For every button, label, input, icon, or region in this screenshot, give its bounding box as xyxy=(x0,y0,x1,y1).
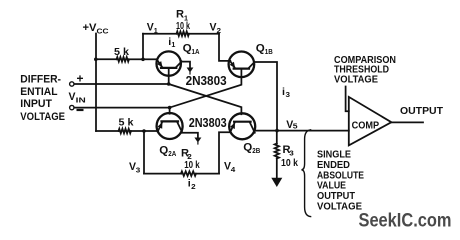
svg-text:2N3803: 2N3803 xyxy=(186,74,227,88)
wire Q1A base down to + node xyxy=(168,68,170,84)
svg-text:5 k: 5 k xyxy=(114,46,129,58)
wire + input line xyxy=(74,83,168,85)
svg-text:2: 2 xyxy=(217,26,222,35)
op-amp comparator U1 xyxy=(349,97,392,145)
svg-text:10 k: 10 k xyxy=(184,160,200,171)
wire node V2 vertical to Q1B emitter xyxy=(219,34,230,61)
svg-text:10 k: 10 k xyxy=(176,21,190,32)
svg-text:2: 2 xyxy=(191,184,196,191)
transistor Q1B xyxy=(229,52,255,78)
transistor Q2A xyxy=(157,113,183,139)
svg-text:10 k: 10 k xyxy=(281,158,298,169)
Q1A collector arrow to negative rail xyxy=(182,62,194,74)
wire node V3 vertical xyxy=(143,131,145,174)
wire top rail V1 left segment xyxy=(143,33,177,35)
wire VCC to 5k (top) xyxy=(96,58,117,60)
svg-text:SeekIC.com: SeekIC.com xyxy=(359,211,452,232)
transistor Q2B xyxy=(229,113,255,139)
svg-text:5: 5 xyxy=(293,122,298,131)
svg-text:3: 3 xyxy=(289,149,294,158)
svg-text:3: 3 xyxy=(286,92,291,99)
wire node V1 vertical xyxy=(142,34,144,60)
wire cross-couple node A to Q2B base xyxy=(169,84,242,114)
svg-text:ENTIAL: ENTIAL xyxy=(20,86,57,98)
svg-text:5 k: 5 k xyxy=(119,117,134,129)
wire 5k to V1 node xyxy=(129,58,143,60)
svg-text:2B: 2B xyxy=(252,146,260,155)
svg-text:+: + xyxy=(77,72,84,86)
svg-text:VOLTAGE: VOLTAGE xyxy=(20,111,65,123)
brace for single ended output voltage xyxy=(301,130,310,217)
wire - input line xyxy=(74,107,169,109)
transistor Q1A xyxy=(157,51,182,75)
ground arrow (negative rail) under R3 xyxy=(271,178,282,187)
svg-text:VOLTAGE: VOLTAGE xyxy=(334,73,378,85)
svg-text:+V: +V xyxy=(83,22,98,34)
svg-text:3: 3 xyxy=(136,165,141,174)
wire Q2B collector to V5 node xyxy=(255,130,277,132)
svg-text:VOLTAGE: VOLTAGE xyxy=(317,201,362,213)
junction dots xyxy=(94,58,98,62)
Q2A collector arrow to negative rail xyxy=(182,133,201,144)
wire bottom rail V4 segment xyxy=(196,173,219,175)
wire V3 node to Q2A emitter xyxy=(144,130,158,132)
svg-text:R: R xyxy=(176,9,184,21)
wire top rail V2 right segment xyxy=(189,33,219,35)
resistor 5k (top) zigzag xyxy=(117,57,130,62)
svg-text:DIFFER-: DIFFER- xyxy=(20,73,61,85)
svg-text:IN: IN xyxy=(76,96,86,105)
wire 5k to V3 node xyxy=(131,130,144,132)
- polarity sign xyxy=(77,109,84,111)
resistor R3 10k vertical zigzag xyxy=(276,131,278,144)
- input terminal xyxy=(70,105,74,109)
wire comparator output xyxy=(391,121,423,123)
svg-text:1A: 1A xyxy=(192,47,200,56)
svg-text:1: 1 xyxy=(171,42,175,49)
wire V1 node to Q1A emitter xyxy=(143,58,157,60)
svg-text:COMP: COMP xyxy=(352,119,380,131)
svg-text:2N3803: 2N3803 xyxy=(189,116,227,130)
svg-text:1B: 1B xyxy=(265,47,273,56)
wire Q1B base diagonal to - node and Q2A base xyxy=(170,69,242,114)
+ input terminal xyxy=(70,82,74,86)
resistor R1 10k zigzag xyxy=(177,31,190,36)
svg-text:1: 1 xyxy=(154,26,158,35)
wire comparison threshold voltage to comparator xyxy=(346,87,349,112)
svg-text:INPUT: INPUT xyxy=(20,98,52,110)
wire Q1B collector down to V5 (current i3) xyxy=(254,62,277,131)
wire bottom rail V3 segment xyxy=(144,173,181,175)
resistor R2 10k zigzag xyxy=(181,171,196,176)
wire VCC to 5k (bottom) xyxy=(96,130,119,132)
svg-text:2A: 2A xyxy=(168,149,176,158)
resistor 5k (bottom) zigzag xyxy=(119,129,132,134)
wire node V4 vertical to Q2B emitter xyxy=(219,132,230,173)
svg-text:CC: CC xyxy=(97,27,110,36)
wire V5 node to comparator input xyxy=(277,130,349,132)
+VCC supply rail vertical wire xyxy=(95,34,97,132)
svg-text:OUTPUT: OUTPUT xyxy=(400,105,444,117)
svg-text:4: 4 xyxy=(231,165,236,174)
